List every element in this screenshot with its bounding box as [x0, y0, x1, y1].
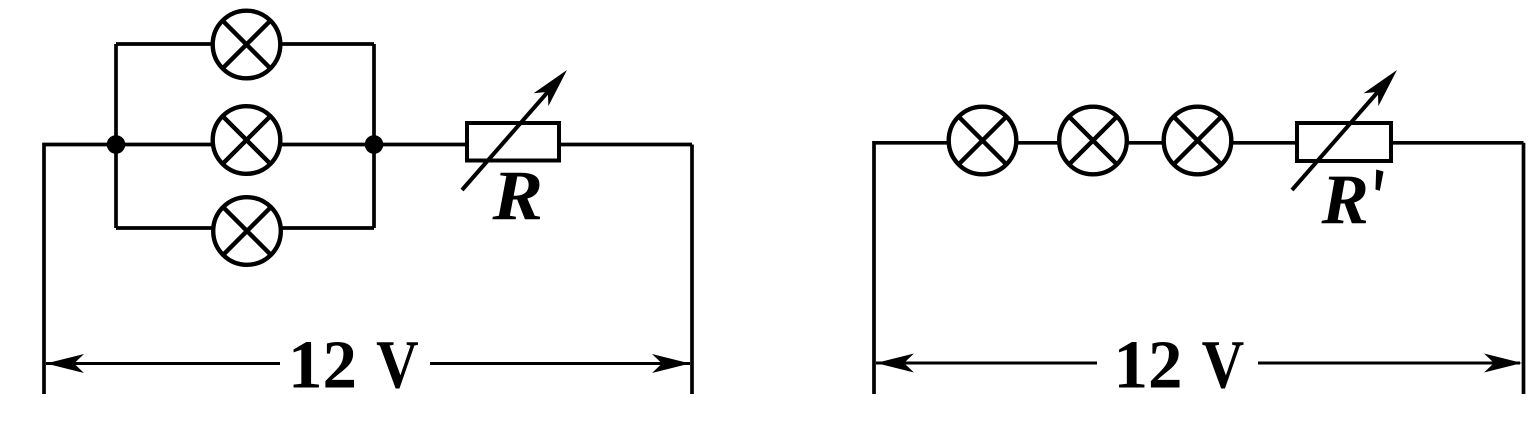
- svg-text:12: 12: [288, 327, 357, 403]
- wire: left circuit right lead (vertical): [690, 145, 694, 395]
- dimension arrow right segment (right circuit 12 V): [1258, 362, 1520, 365]
- dimension arrow left segment (left circuit 12 V): [46, 362, 280, 365]
- lamp L5 (right circuit, second): [1059, 107, 1127, 175]
- wire: left circuit left lead (vertical + corner to node A): [44, 145, 116, 395]
- dimension arrow right segment (left circuit 12 V): [430, 362, 690, 365]
- wire: left circuit top branch: [116, 42, 374, 46]
- rheostat R' (right circuit): body box: [1297, 123, 1391, 161]
- rheostat R (left circuit): adjustment arrow: [462, 64, 574, 190]
- lamp L3 (left circuit, bottom): [213, 197, 281, 265]
- junction node A (left circuit): [107, 135, 126, 154]
- wire: left circuit bottom branch: [116, 226, 374, 230]
- junction node B (left circuit): [365, 135, 384, 154]
- wire: left circuit parallel bus left (x=116): [114, 44, 118, 228]
- lamp L4 (right circuit, first): [949, 107, 1017, 175]
- wire: right circuit right lead (vertical): [1522, 143, 1526, 394]
- dimension arrowhead right (left circuit): [652, 354, 690, 373]
- wire: left circuit rheostat to right lead: [559, 143, 692, 147]
- svg-text:R: R: [491, 156, 543, 234]
- dimension arrow left segment (right circuit 12 V): [876, 362, 1097, 365]
- svg-text:V: V: [1202, 326, 1245, 402]
- wire: left circuit middle branch (node A to rheostat): [116, 143, 467, 147]
- lamp L6 (right circuit, third): [1164, 107, 1232, 175]
- rheostat R' (right circuit): adjustment arrow: [1292, 64, 1404, 190]
- wire: left circuit parallel bus right (x=374): [372, 44, 376, 228]
- lamp L1 (left circuit, top): [213, 11, 281, 79]
- lamp L2 (left circuit, middle): [213, 106, 281, 174]
- wire: right circuit rheostat to right lead: [1391, 141, 1524, 145]
- dimension arrowhead left (left circuit): [46, 354, 84, 373]
- dimension arrowhead right (right circuit): [1484, 354, 1522, 373]
- svg-text:R: R: [1321, 161, 1369, 239]
- wire: right circuit left lead (vertical + corner): [874, 143, 1297, 394]
- label R' (right rheostat): prime mark: [1376, 170, 1384, 191]
- svg-text:12: 12: [1114, 327, 1183, 403]
- svg-text:V: V: [376, 326, 419, 402]
- dimension arrowhead left (right circuit): [876, 354, 914, 373]
- rheostat R (left circuit): body box: [467, 123, 559, 161]
